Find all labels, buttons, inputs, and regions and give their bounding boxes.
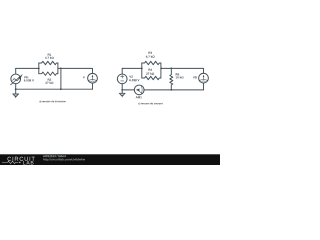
wire voltmeter bottom [92,83,94,89]
voltmeter V [88,73,98,83]
logo CIRCUIT [7,157,34,161]
ground [15,89,17,94]
logo LAB [23,161,33,164]
node R5 bottom [170,89,172,91]
voltage source V2 [117,74,127,84]
caption a [39,100,65,102]
label V [83,76,85,78]
wire node A to voltmeter [61,68,93,73]
label VD [193,76,197,78]
label R5 [176,73,179,75]
label R5 value [176,76,184,78]
label Vin value [24,79,34,81]
wire bottom rail c right [144,89,203,91]
node left bar junction [38,68,40,70]
voltmeter VD [199,73,209,83]
resistor R3 [142,61,161,64]
label R1 [48,54,51,56]
resistor R4 [142,76,161,79]
label R4 value [146,73,154,75]
footer text line 1 [43,155,66,157]
wire V2 bottom [121,84,123,90]
label AM1 [136,96,142,98]
label R1 value [45,57,54,59]
wire left bar [38,63,40,74]
wire VD bottom [203,83,205,90]
label R2 value [45,82,53,84]
node bottom A [60,88,62,90]
wire return branch [60,68,62,89]
node R5 top [170,68,172,70]
wire V2 top to rail [121,68,123,74]
ground c [121,90,123,93]
caption c [138,103,162,105]
wire right bar stub [58,67,61,69]
node A [60,68,62,70]
node ground c [121,89,123,91]
label R2 [48,79,51,81]
resistor R5 [170,68,173,90]
labels [24,52,197,99]
label Vin [24,76,28,78]
label R4 [149,69,153,71]
label V2 value [129,79,139,81]
label V2 [129,76,132,78]
wire bottom rail c left [122,89,134,91]
ammeter AM1 [134,85,144,95]
wire right bar [57,63,59,74]
wire bottom rail a [16,88,93,90]
logo wire motif [2,161,21,163]
label R3 [149,52,152,54]
wire node to VD [171,68,203,73]
wire top rail c [122,67,142,69]
resistor R2 [39,72,58,75]
wire source bottom [15,84,17,89]
label R3 value [146,55,155,57]
wire source top to rail [15,68,17,74]
wire top rail to resistor block [16,67,39,69]
voltage source Vin [11,74,21,84]
resistor R1 [39,61,58,64]
node left bar c [141,68,143,70]
wire right bar stub c [161,67,171,69]
variable arrow of Vin [11,77,20,85]
footer bar [0,154,220,165]
footer text line 2 [43,158,85,161]
node ground a [15,88,17,90]
wire left bar c [141,63,143,78]
wire right bar c [160,63,162,78]
